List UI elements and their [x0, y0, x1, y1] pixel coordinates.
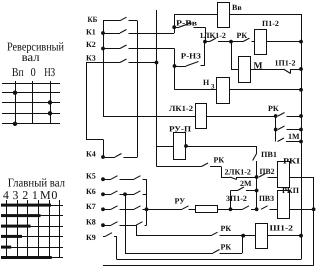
- svg-text:1: 1: [32, 188, 38, 202]
- contact 1П1-2: [275, 59, 302, 74]
- contact Р-Вв: [172, 19, 205, 30]
- svg-text:К9: К9: [86, 233, 96, 242]
- wire resistor out: [218, 207, 243, 211]
- contact 2ЛК1-2: [225, 168, 257, 180]
- wire Ш input lead: [243, 235, 255, 237]
- svg-text:1П1-2: 1П1-2: [275, 59, 296, 68]
- wire ЛК row left: [103, 116, 195, 118]
- reversing-shaft grid: [2, 81, 60, 124]
- contact К6 (x2): [86, 187, 147, 196]
- coil П1-2: [255, 19, 279, 55]
- wire К8 drop (to lower РК): [136, 225, 138, 236]
- svg-text:РУ-П: РУ-П: [169, 125, 192, 134]
- wire РУ-П row left: [157, 146, 174, 148]
- svg-text:П1-2: П1-2: [262, 19, 279, 28]
- resistor РУ row: [189, 206, 218, 213]
- contact ПВ3: [259, 194, 277, 210]
- node 1ЛК row input: [203, 40, 207, 44]
- svg-text:2ЛК1-2: 2ЛК1-2: [225, 168, 251, 177]
- contact К8 (x2): [86, 218, 147, 227]
- coil РК1: [278, 157, 301, 188]
- svg-text:3: 3: [211, 84, 215, 91]
- svg-text:РК: РК: [214, 155, 225, 164]
- contact РК (Ш row): [136, 224, 243, 236]
- node М row bus: [299, 67, 303, 71]
- wire К1 bend up: [174, 27, 176, 33]
- coil РКП: [278, 186, 300, 219]
- contact ПВ2: [259, 167, 277, 178]
- svg-text:0: 0: [31, 65, 36, 79]
- wire М branch drop: [231, 42, 238, 70]
- contact 1ЛК1-2: [200, 31, 232, 42]
- wire РК-2ЛК corner: [221, 167, 230, 178]
- contact РК (П1-2 row): [231, 31, 255, 42]
- wire Ш out: [267, 234, 303, 238]
- coil Вв: [218, 3, 243, 28]
- node М branch: [229, 40, 233, 44]
- wire ЛК row right: [206, 116, 276, 118]
- svg-text:К1: К1: [86, 28, 96, 37]
- coil РУ-П: [169, 125, 192, 160]
- wire К6 drop (to lower РК): [125, 194, 127, 253]
- svg-text:РК: РК: [221, 243, 232, 252]
- wire РК cluster vertical: [274, 116, 278, 142]
- svg-text:2: 2: [22, 188, 28, 202]
- svg-text:3П1-2: 3П1-2: [226, 194, 247, 203]
- svg-text:Вп: Вп: [12, 65, 24, 79]
- wire left bus (КБ-К2): [103, 21, 105, 116]
- contact К7 (x2): [86, 202, 148, 211]
- contact К9: [86, 233, 117, 242]
- contact 3П1-2: [226, 194, 257, 210]
- svg-text:НЗ: НЗ: [44, 65, 55, 79]
- contact К1: [86, 28, 174, 37]
- wire М to 1П1-2: [250, 69, 284, 71]
- contact ПВ1: [253, 146, 277, 177]
- coil ЛК1-2: [169, 104, 207, 129]
- contact РК (lower): [125, 243, 242, 254]
- wire К3 bus (vertical 157): [156, 10, 158, 167]
- wire 2М branch drop: [230, 191, 232, 210]
- title Главный вал: [8, 176, 65, 190]
- wire top rail: [174, 14, 301, 16]
- node НЗ row3: [48, 100, 52, 104]
- title Реверсивный вал: [7, 40, 64, 65]
- svg-text:К2: К2: [86, 40, 96, 49]
- svg-text:3: 3: [12, 188, 18, 202]
- svg-text:0: 0: [51, 188, 57, 202]
- svg-text:4: 4: [3, 188, 9, 202]
- contact РК (ИМ row1): [268, 104, 303, 118]
- wire РУ-П out: [184, 144, 257, 148]
- contact К4: [86, 150, 137, 159]
- contact К2: [86, 40, 175, 50]
- svg-text:вал: вал: [22, 50, 40, 64]
- coil М: [239, 57, 263, 83]
- svg-text:Р-НЗ: Р-НЗ: [181, 51, 201, 60]
- wire КБ-К4 vertical: [137, 21, 139, 157]
- wire far-right return bus: [313, 177, 315, 266]
- contact РК (middle): [157, 155, 225, 166]
- contact 1М: [278, 132, 303, 143]
- svg-text:К5: К5: [86, 172, 96, 181]
- wire П1-2 to bus: [267, 40, 303, 44]
- wire rail-to-РВв corner: [174, 14, 176, 27]
- svg-text:К6: К6: [86, 187, 96, 196]
- node ПВ2 junction: [255, 175, 259, 179]
- header Вп 0 НЗ: [12, 65, 55, 79]
- node ПВ3 junction: [255, 207, 259, 211]
- wire К5-К8 bracket: [146, 179, 148, 225]
- node НЗ row4: [48, 111, 52, 115]
- svg-text:РУ: РУ: [175, 197, 186, 206]
- svg-text:КБ: КБ: [88, 15, 98, 24]
- wire ПВ bus: [255, 177, 259, 209]
- svg-text:ПВЗ: ПВЗ: [259, 194, 274, 203]
- svg-text:ЛК1-2: ЛК1-2: [169, 104, 193, 113]
- wire Р-НЗ to 1ЛК row: [204, 42, 206, 66]
- header 4 3 2 1 М 0: [3, 188, 58, 202]
- svg-text:Р-Вв: Р-Вв: [176, 19, 198, 28]
- svg-text:РК: РК: [268, 104, 279, 113]
- svg-text:К3: К3: [86, 54, 96, 63]
- wire К3 margin loop: [86, 63, 104, 158]
- svg-text:1ЛК1-2: 1ЛК1-2: [200, 31, 226, 40]
- svg-text:К8: К8: [86, 218, 96, 227]
- svg-text:Н: Н: [203, 78, 210, 87]
- contact РУ: [147, 197, 189, 210]
- wire К9 bottom run: [117, 259, 301, 261]
- wire К9 drop: [116, 236, 118, 259]
- node Вп row2: [13, 91, 17, 95]
- main-shaft cam bars: [1, 204, 52, 259]
- contact К5 (x2): [86, 172, 147, 181]
- contact К3: [86, 54, 157, 63]
- svg-text:1М: 1М: [288, 132, 300, 141]
- svg-text:ПВ1: ПВ1: [261, 150, 277, 159]
- svg-text:РКП: РКП: [282, 186, 300, 195]
- wire bottom return: [103, 265, 314, 267]
- node Ш input: [241, 234, 245, 238]
- svg-text:РК: РК: [221, 224, 232, 233]
- svg-text:РКI: РКI: [283, 157, 300, 166]
- svg-text:РК: РК: [237, 31, 248, 40]
- svg-text:К4: К4: [86, 150, 96, 159]
- svg-text:Ш1-2: Ш1-2: [270, 224, 294, 233]
- svg-text:ПВ2: ПВ2: [260, 167, 275, 176]
- wire К2 down to Р-НЗ and Н3: [173, 49, 177, 90]
- wire right bus: [301, 14, 303, 260]
- wire РКП out: [289, 207, 316, 211]
- svg-text:К7: К7: [86, 202, 96, 211]
- node РК cluster top: [274, 114, 278, 118]
- contact 2М: [231, 179, 257, 191]
- contact Р-НЗ: [175, 51, 205, 66]
- svg-text:Вв: Вв: [232, 3, 242, 12]
- wire Н3 to bus: [229, 88, 303, 92]
- wire РК1 out: [289, 177, 314, 179]
- wire Р-Вв to 1ЛК row: [205, 27, 207, 41]
- coil Н3: [203, 78, 230, 104]
- node Вп row5: [13, 122, 17, 126]
- coil Ш1-2: [256, 224, 294, 249]
- wire lower РК join: [242, 236, 244, 253]
- contact КБ: [88, 15, 138, 24]
- svg-text:2М: 2М: [240, 179, 252, 188]
- contact РК (ИМ row2): [278, 126, 303, 131]
- node К3-bus junction: [155, 61, 159, 65]
- wire К2 corner to Н3: [175, 89, 217, 91]
- main-shaft grid: [2, 200, 64, 258]
- svg-text:М: М: [40, 188, 51, 202]
